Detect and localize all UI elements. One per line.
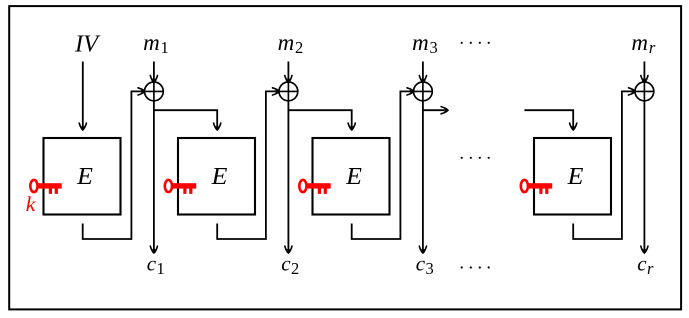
wire m1 down into xor	[153, 62, 155, 82]
svg-text:E: E	[76, 164, 93, 190]
E box (block cipher) block 3	[313, 138, 390, 215]
wire feedback: E output up to xor, block 2	[217, 91, 277, 239]
svg-text:IV: IV	[74, 31, 101, 58]
wire IV down into E box 1	[82, 62, 84, 129]
wire feedback: E output up to xor, block 3	[352, 91, 412, 239]
wire mr down into xor	[643, 62, 645, 82]
E box (block cipher) block 2	[178, 138, 255, 215]
svg-text:k: k	[26, 192, 36, 216]
dots (top row, between m3 and mr)	[461, 42, 490, 44]
wire feedback: E output up to xor, block 1	[83, 91, 143, 239]
wire xor to c2	[287, 101, 289, 251]
wire xor to c3	[422, 101, 424, 251]
wire branch xor1 to E box 2	[154, 110, 217, 128]
svg-text:E: E	[345, 164, 362, 190]
xor (circle-plus) block 2	[279, 82, 298, 101]
xor (circle-plus) block 1	[145, 82, 164, 101]
svg-text:E: E	[211, 164, 228, 190]
dots (middle row)	[461, 157, 490, 159]
wire xor to c1	[153, 101, 155, 251]
dots (bottom row, between c3 and cr)	[461, 266, 490, 268]
E box (block cipher) block 1	[44, 138, 121, 215]
svg-text:E: E	[567, 164, 584, 190]
wire branch xor3 to dots	[423, 109, 445, 111]
wire xor to cr	[643, 101, 645, 251]
key (red) for cipher block at x=178.0	[165, 180, 196, 194]
E box (block cipher) block 4	[534, 138, 611, 215]
xor (circle-plus) block 4	[635, 82, 654, 101]
key (red) for cipher block at x=534.0	[521, 180, 552, 194]
key (red) for cipher block at x=43.5	[30, 180, 61, 194]
wire m2 down into xor	[287, 62, 289, 82]
wire branch xor2 to E box 3	[288, 110, 351, 128]
wire m3 down into xor	[422, 62, 424, 82]
key (red) for cipher block at x=312.5	[299, 180, 330, 194]
wire feedback: E output up to xor, block 4	[573, 91, 633, 239]
xor (circle-plus) block 3	[414, 82, 433, 101]
wire from dots into E box r	[524, 110, 573, 128]
